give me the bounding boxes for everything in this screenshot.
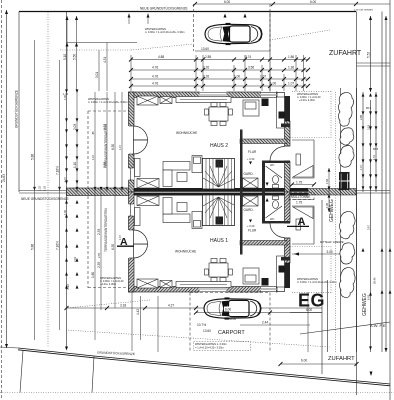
car bottom (carport) xyxy=(204,297,261,319)
svg-text:6.50: 6.50 xyxy=(111,144,115,150)
svg-text:2.33: 2.33 xyxy=(97,229,101,235)
kitchen cupboard column left of stairs xyxy=(192,156,202,173)
kitchen counter along top wall xyxy=(243,100,259,116)
svg-text:1.90: 1.90 xyxy=(63,209,67,215)
svg-text:5.52: 5.52 xyxy=(367,52,371,58)
svg-text:4.76: 4.76 xyxy=(152,82,158,86)
svg-text:6.00: 6.00 xyxy=(301,359,307,363)
right dims small rotated labels xyxy=(359,106,391,300)
note text left HAUS2 terrace xyxy=(88,97,128,104)
NEUE GRUNDSTUECKSGRENZE party boundary band xyxy=(19,187,390,201)
svg-text:4.42: 4.42 xyxy=(136,309,140,315)
HAUS 1 = mirrored copy of unit geometry xyxy=(128,192,331,293)
carport width dim line through car xyxy=(194,307,322,315)
long sill under top wall xyxy=(176,97,231,103)
svg-text:+4.20+ 3.30m: +4.20+ 3.30m xyxy=(100,282,116,286)
left main dimension verticals xyxy=(31,12,141,348)
svg-text:FLUR: FLUR xyxy=(248,229,257,233)
svg-text:24.63: 24.63 xyxy=(2,174,6,182)
svg-text:86.5: 86.5 xyxy=(373,147,379,151)
tall cabinet column xyxy=(277,97,285,128)
fridge dark box xyxy=(279,112,286,119)
small note text above building xyxy=(145,27,185,34)
svg-text:1.86: 1.86 xyxy=(288,55,294,59)
svg-text:GARD.: GARD. xyxy=(244,208,254,212)
right property line vertical xyxy=(356,12,358,396)
svg-text:1.75: 1.75 xyxy=(296,181,302,185)
svg-text:4.88: 4.88 xyxy=(158,55,164,59)
entry door arc inside flur xyxy=(270,147,285,162)
svg-text:WOHNKÜCHE: WOHNKÜCHE xyxy=(176,131,197,135)
dining table with chairs xyxy=(205,103,233,126)
svg-text:ZUFAHRT: ZUFAHRT xyxy=(329,50,362,57)
svg-text:ZUFAHRT: ZUFAHRT xyxy=(328,356,355,362)
svg-text:1.10: 1.10 xyxy=(73,162,77,168)
svg-text:1.07: 1.07 xyxy=(118,144,122,150)
dashed line right of building xyxy=(335,92,337,352)
entry porch xyxy=(292,140,314,178)
muelltonne dashed box and label xyxy=(289,193,314,200)
svg-text:CARPORT: CARPORT xyxy=(218,330,245,336)
window crossed box top wall 2 xyxy=(160,97,172,104)
corner window NE xyxy=(277,93,285,103)
svg-text:NEUE GRUNDSTÜCKSGRENZE: NEUE GRUNDSTÜCKSGRENZE xyxy=(140,7,188,11)
svg-text:0.30 VON GEHWEG: 0.30 VON GEHWEG xyxy=(354,10,374,12)
svg-text:+ 0.30: + 0.30 xyxy=(247,157,255,161)
driveway curb cut lines across sidewalk xyxy=(357,62,391,64)
section marker A left (HAUS 1) xyxy=(117,236,134,248)
svg-text:FLUR: FLUR xyxy=(248,150,257,154)
svg-text:6.50: 6.50 xyxy=(111,244,115,250)
svg-text:1.07: 1.07 xyxy=(288,82,294,86)
bushes strip right xyxy=(339,88,357,352)
dotted sight lines across carport xyxy=(66,300,330,347)
svg-text:7.16½: 7.16½ xyxy=(56,241,60,250)
svg-text:GARD.: GARD. xyxy=(244,172,254,176)
left wall window opening xyxy=(128,168,134,180)
bottom dimension row xyxy=(65,296,323,352)
svg-text:86.5: 86.5 xyxy=(366,106,372,110)
svg-text:2.55: 2.55 xyxy=(97,252,101,258)
svg-text:1.02: 1.02 xyxy=(43,185,47,191)
left property boundary vertical solid xyxy=(66,12,68,350)
svg-text:6.92: 6.92 xyxy=(367,294,371,300)
top exterior wall xyxy=(129,92,278,98)
svg-text:2.44: 2.44 xyxy=(262,321,268,325)
svg-text:10.7%: 10.7% xyxy=(197,323,206,327)
svg-text:1.07: 1.07 xyxy=(359,164,363,170)
svg-text:ü. 0.00m = 1.A×0.20+4.20+ 3.30: ü. 0.00m = 1.A×0.20+4.20+ 3.30m xyxy=(145,30,185,34)
svg-text:6.00: 6.00 xyxy=(306,308,312,312)
extra micro dimension labels left column xyxy=(63,92,122,262)
svg-text:.85: .85 xyxy=(91,131,95,135)
canopy dotted outline xyxy=(292,90,331,92)
note text block below carport xyxy=(194,342,251,351)
svg-text:1.10: 1.10 xyxy=(91,154,95,160)
svg-text:MITTELW. GRENZE: MITTELW. GRENZE xyxy=(320,240,344,244)
svg-text:2.03: 2.03 xyxy=(73,124,77,130)
svg-text:5.86: 5.86 xyxy=(31,154,35,160)
6.00 bottom right dim xyxy=(279,359,373,377)
svg-text:4.27: 4.27 xyxy=(168,304,174,308)
wc west wall xyxy=(262,163,265,192)
parking space dashed outline top xyxy=(131,4,330,92)
staircase xyxy=(203,159,235,190)
6.00 under EG xyxy=(290,308,322,313)
top property line NEUE GRUNDSTUECKSGRENZE xyxy=(19,11,356,13)
svg-text:13.60: 13.60 xyxy=(201,47,209,51)
wc fixtures xyxy=(273,176,279,189)
svg-text:3.56: 3.56 xyxy=(248,66,254,70)
left page edge dashed line xyxy=(1,0,3,398)
carport dashed outline xyxy=(190,293,270,353)
svg-text:HAUS 1: HAUS 1 xyxy=(210,238,228,244)
svg-text:3.01: 3.01 xyxy=(95,72,99,78)
svg-text:GRUNDSTÜCKSGRENZE: GRUNDSTÜCKSGRENZE xyxy=(15,90,19,128)
svg-text:5.50: 5.50 xyxy=(73,54,77,60)
old property boundary line left (GRUNDSTUECKSGRENZE) xyxy=(18,12,20,193)
svg-text:4.76: 4.76 xyxy=(152,75,158,79)
south property boundary double line xyxy=(18,347,390,386)
terrace double door arcs xyxy=(134,126,148,140)
porch dim labels xyxy=(292,184,314,186)
svg-text:26.45: 26.45 xyxy=(373,277,377,284)
note text right of building HAUS2 xyxy=(297,92,321,102)
section marker A right (HAUS 2/1 shared) xyxy=(287,216,309,228)
interior wall wc xyxy=(262,161,290,164)
terrace dashed outline HAUS 2 xyxy=(88,111,129,288)
svg-text:HAUS 2: HAUS 2 xyxy=(210,143,228,149)
svg-text:1.75: 1.75 xyxy=(296,201,302,205)
svg-text:GEHWEG: GEHWEG xyxy=(329,199,335,222)
dimension line 24.63 far left xyxy=(2,10,8,348)
small dim right of bins xyxy=(328,168,330,212)
svg-text:6.00: 6.00 xyxy=(225,308,231,312)
svg-text:1.51: 1.51 xyxy=(372,154,376,160)
svg-text:1.36: 1.36 xyxy=(288,66,294,70)
svg-text:1.84: 1.84 xyxy=(325,178,329,184)
svg-text:2.85: 2.85 xyxy=(205,55,211,59)
svg-text:5.86: 5.86 xyxy=(31,244,35,250)
interior wall kitchen/flur hatched xyxy=(240,139,287,144)
svg-text:WC: WC xyxy=(270,217,274,221)
svg-text:WOHNKÜCHE: WOHNKÜCHE xyxy=(175,250,196,254)
stove black xyxy=(262,99,269,107)
left wall door opening xyxy=(128,126,134,154)
svg-text:A.W. P.E: A.W. P.E xyxy=(370,323,386,328)
note text left HAUS1 terrace xyxy=(100,276,124,286)
svg-text:1.52: 1.52 xyxy=(38,185,42,191)
muelltonne black bins right of party wall xyxy=(339,172,350,190)
window crossed box top wall 1 xyxy=(137,96,158,105)
sofa group xyxy=(163,162,190,187)
interior wall horizontal below kitchen xyxy=(281,124,290,128)
note text right of building HAUS1 xyxy=(297,277,337,284)
AW PE diagonal line and label xyxy=(300,322,390,334)
svg-text:7.16½: 7.16½ xyxy=(56,166,60,175)
left exterior wall xyxy=(129,92,135,192)
svg-text:WC: WC xyxy=(270,163,274,167)
car top (sedan, top view, facing left) xyxy=(205,23,262,45)
svg-text:6.00: 6.00 xyxy=(310,0,316,4)
svg-text:3.97: 3.97 xyxy=(367,224,371,230)
svg-text:1.80: 1.80 xyxy=(91,272,95,278)
svg-text:2.86: 2.86 xyxy=(359,114,363,120)
left upper dimension verticals xyxy=(60,16,137,91)
svg-text:1.07: 1.07 xyxy=(63,176,67,182)
svg-text:1.40: 1.40 xyxy=(63,92,69,96)
svg-text:2.03: 2.03 xyxy=(73,256,77,262)
svg-text:MÜLLTONNE: MÜLLTONNE xyxy=(291,195,310,199)
svg-text:+ 0.30: + 0.30 xyxy=(247,224,255,228)
svg-text:3.00: 3.00 xyxy=(327,250,333,254)
gard crossed box xyxy=(243,178,259,188)
svg-text:ü. 0.00m = 1.A×0.20+4.20+ 3.30: ü. 0.00m = 1.A×0.20+4.20+ 3.30m xyxy=(297,280,337,284)
svg-text:4.76: 4.76 xyxy=(152,66,158,70)
svg-text:ü. 0.00m = 1.A×0.20+4.20+ 3.30: ü. 0.00m = 1.A×0.20+4.20+ 3.30m xyxy=(88,100,128,104)
svg-text:TERRASSE/WINTERGARTEN: TERRASSE/WINTERGARTEN xyxy=(104,207,108,252)
wc door diagonal leaf xyxy=(266,166,283,178)
svg-text:WINTERGARTEN ü. 0.00m: WINTERGARTEN ü. 0.00m xyxy=(195,342,227,346)
svg-text:6.00: 6.00 xyxy=(224,0,230,4)
svg-text:2.55: 2.55 xyxy=(97,262,101,268)
radiator along left wall xyxy=(135,159,141,177)
top dimension rows above building xyxy=(129,55,310,91)
svg-text:3.18: 3.18 xyxy=(367,124,371,130)
building side walls extended to south boundary xyxy=(131,288,133,351)
right exterior wall upper dark xyxy=(285,96,291,121)
svg-text:13.60: 13.60 xyxy=(203,329,211,333)
bottom dashed page line xyxy=(0,392,394,394)
crossed window box near party wall xyxy=(137,179,159,189)
top dimension line 6.00 / 6.00 xyxy=(193,0,390,6)
right dimension verticals with arrows xyxy=(362,16,388,352)
dim line 3.00 right of HAUS1 xyxy=(292,240,344,256)
GEHWEG vertical boundary lines xyxy=(321,200,323,374)
svg-text:5.10: 5.10 xyxy=(63,54,67,60)
svg-text:= 1.A×0.20+4.20+ 3.30m: = 1.A×0.20+4.20+ 3.30m xyxy=(195,346,224,350)
interior wall flur left vertical xyxy=(240,130,243,193)
svg-text:3.18: 3.18 xyxy=(120,304,126,308)
far right border lines xyxy=(389,0,391,400)
svg-text:TERRASSE/WINTERGARTEN: TERRASSE/WINTERGARTEN xyxy=(104,123,108,168)
svg-text:+4.20+ 3.30m: +4.20+ 3.30m xyxy=(299,98,315,102)
svg-text:NEUE GRUNDSTÜCKSGRENZE: NEUE GRUNDSTÜCKSGRENZE xyxy=(21,197,69,201)
svg-text:4.31: 4.31 xyxy=(103,57,107,63)
bottom-left road wedge xyxy=(0,347,94,393)
